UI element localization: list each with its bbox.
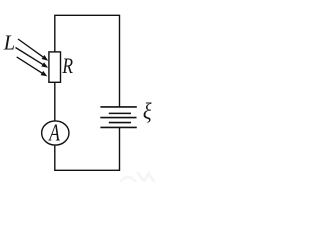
battery plate 2 (short)	[109, 112, 131, 114]
battery plate 1 (long, top)	[100, 106, 136, 108]
svg-text:R: R	[62, 54, 74, 78]
light ray arrow 2	[16, 48, 44, 66]
ammeter A (ellipse)	[42, 121, 69, 145]
svg-text:L: L	[3, 30, 15, 54]
svg-text:ξ: ξ	[143, 99, 152, 125]
faint watermark bottom-right	[121, 173, 154, 181]
wire: left top + top rail + right wire down to battery	[55, 15, 120, 107]
light ray arrow 3	[17, 57, 43, 74]
svg-text:A: A	[48, 118, 61, 146]
wire: left side between resistor R and ammeter A	[54, 82, 56, 121]
light ray arrow 1	[18, 39, 44, 58]
wire: left bottom + bottom rail + right wire up to battery	[55, 127, 120, 170]
resistor R (photoresistor box)	[49, 52, 61, 82]
battery plate 3 (long)	[100, 117, 136, 119]
battery plate 4 (short)	[109, 122, 131, 124]
battery plate 5 (long, bottom)	[100, 126, 136, 128]
